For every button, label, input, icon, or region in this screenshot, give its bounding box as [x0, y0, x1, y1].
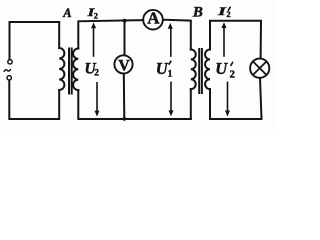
svg-text:A: A [62, 6, 71, 20]
source terminal top [8, 60, 12, 64]
source terminal bottom [7, 76, 11, 80]
svg-text:B: B [192, 4, 203, 20]
svg-text:2: 2 [94, 69, 99, 79]
arrow U2' up [223, 27, 225, 57]
wire loop2 top [78, 20, 143, 48]
arrow U1' down [170, 82, 172, 112]
arrow U1' up [170, 28, 172, 57]
wire loop4 top [210, 21, 261, 59]
node top voltmeter junction [123, 19, 127, 23]
ammeter A1 circle [143, 10, 163, 30]
wire loop2-3 bottom [78, 90, 191, 119]
node bottom voltmeter junction [122, 117, 126, 121]
svg-text:U: U [215, 59, 228, 78]
svg-text:V: V [118, 57, 130, 74]
winding A primary [59, 48, 64, 90]
wire loop1 bottom [9, 80, 59, 119]
svg-text:2: 2 [226, 9, 230, 19]
label ~ AC source [4, 70, 10, 72]
lamp EL cross [253, 62, 266, 75]
wire voltmeter branch upper [124, 21, 126, 56]
wire loop4 bottom [210, 78, 262, 119]
winding A secondary [73, 49, 78, 91]
core transformer A [68, 49, 70, 94]
core transformer B [198, 49, 200, 93]
arrow U2 down [96, 82, 98, 112]
arrow U2' down [227, 82, 229, 112]
svg-text:2: 2 [94, 10, 98, 20]
arrow U2 up [93, 27, 95, 57]
wire B primary bottom [190, 89, 192, 119]
winding B secondary [205, 50, 210, 90]
wire ammeter to B [163, 20, 191, 50]
svg-text:1: 1 [168, 69, 173, 79]
svg-text:2: 2 [230, 69, 235, 80]
voltmeter V1 circle [114, 55, 132, 73]
wire voltmeter branch lower [123, 74, 126, 120]
lamp EL circle [250, 59, 269, 78]
winding B primary [191, 50, 196, 90]
svg-text:I: I [217, 6, 227, 18]
svg-text:A: A [147, 8, 160, 27]
wire loop1 top [10, 22, 60, 60]
